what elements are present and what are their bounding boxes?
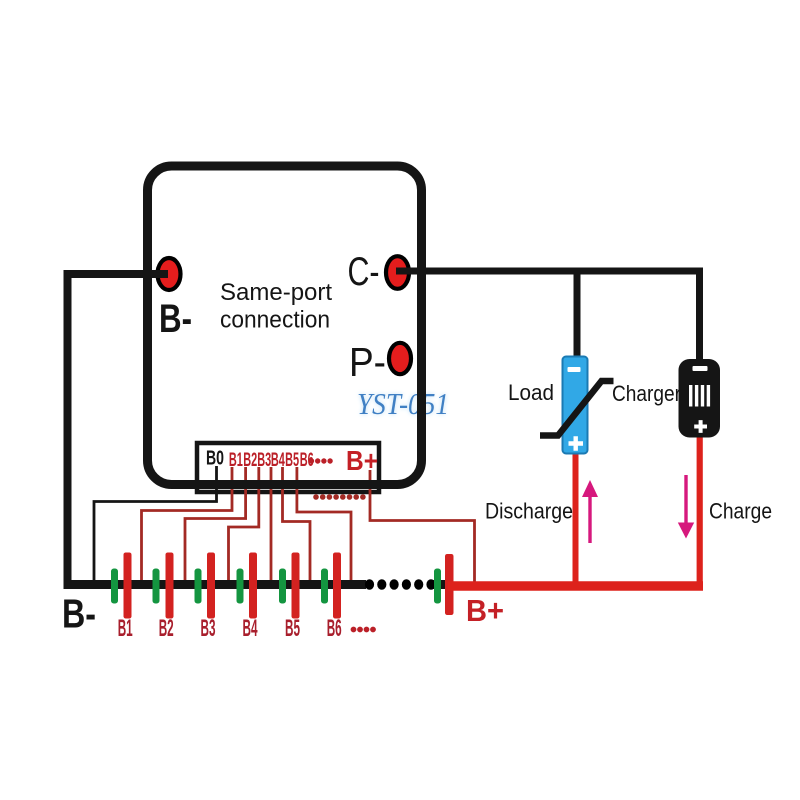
wire sense B4 bbox=[270, 467, 273, 582]
cell Bn positive plate (B+ end) bbox=[445, 554, 454, 615]
wire B+ bus bbox=[448, 581, 703, 591]
cell B6 negative plate bbox=[321, 569, 328, 604]
svg-text:Charge: Charge bbox=[709, 499, 772, 524]
wire drop to load bbox=[574, 271, 581, 358]
wire B0 sense (black) bbox=[94, 466, 217, 582]
wire sense B+ bbox=[370, 470, 475, 584]
load minus mark bbox=[568, 367, 581, 372]
svg-text:B1: B1 bbox=[118, 615, 133, 642]
cell B6 positive plate bbox=[333, 553, 341, 619]
cell B3 negative plate bbox=[195, 569, 202, 604]
connector ellipsis dots bbox=[309, 458, 314, 463]
charger minus mark bbox=[693, 366, 708, 371]
discharge arrow (up) bbox=[588, 495, 591, 543]
svg-text:P-: P- bbox=[349, 339, 386, 385]
load plus mark bbox=[569, 436, 584, 451]
cell B4 negative plate bbox=[237, 569, 244, 604]
charger plus mark bbox=[694, 420, 707, 433]
terminal B- pad bbox=[158, 258, 181, 290]
svg-text:connection: connection bbox=[220, 307, 330, 334]
svg-text:B5: B5 bbox=[285, 615, 300, 642]
BMS board U1 outline bbox=[148, 166, 422, 485]
svg-text:C-: C- bbox=[348, 250, 380, 294]
terminal C- pad bbox=[386, 256, 409, 289]
rail stub at B+ end bbox=[430, 580, 447, 589]
battery string ellipsis dots bbox=[365, 579, 374, 590]
cell B1 negative plate bbox=[111, 569, 118, 604]
terminal P- pad bbox=[389, 343, 411, 374]
svg-text:B+: B+ bbox=[346, 445, 378, 476]
svg-text:Same-port: Same-port bbox=[220, 279, 332, 306]
cell B4 positive plate bbox=[249, 553, 257, 619]
wire sense B1 bbox=[142, 467, 233, 582]
wire sense B3 bbox=[229, 467, 259, 582]
wire C- to top bus bbox=[396, 268, 703, 275]
wire drop to charger bbox=[696, 268, 703, 362]
cell B2 positive plate bbox=[166, 553, 174, 619]
cell label ellipsis dots bbox=[351, 627, 357, 633]
cell Bn negative plate (B+ end) bbox=[434, 569, 441, 604]
connector J1 (balance plug strip) bbox=[197, 443, 379, 492]
svg-text:B4: B4 bbox=[243, 615, 258, 642]
svg-text:B-: B- bbox=[159, 297, 192, 341]
wire charger return bbox=[697, 436, 703, 586]
wire sense B5 bbox=[283, 467, 311, 582]
svg-text:B+: B+ bbox=[466, 593, 504, 628]
svg-text:B3: B3 bbox=[201, 615, 216, 642]
svg-text:B-: B- bbox=[62, 591, 96, 637]
svg-text:Load: Load bbox=[508, 380, 554, 405]
svg-text:B0: B0 bbox=[206, 448, 224, 470]
svg-text:B6: B6 bbox=[327, 615, 342, 642]
charge arrow (down) bbox=[684, 475, 687, 524]
wire B- to battery negative rail bbox=[68, 274, 169, 585]
svg-text:Charger: Charger bbox=[612, 381, 681, 406]
wire sense B2 bbox=[185, 467, 246, 582]
load LD1 body bbox=[563, 357, 588, 454]
battery negative rail bbox=[64, 580, 367, 589]
wire sense B6 bbox=[297, 467, 351, 582]
cell B2 negative plate bbox=[153, 569, 160, 604]
svg-text:Discharge: Discharge bbox=[485, 499, 573, 524]
cell B3 positive plate bbox=[207, 553, 215, 619]
cell B1 positive plate bbox=[124, 553, 132, 619]
svg-text:B2: B2 bbox=[159, 615, 174, 642]
cell B5 positive plate bbox=[292, 553, 300, 619]
ellipsis dots below connector bbox=[313, 494, 319, 500]
cell B5 negative plate bbox=[279, 569, 286, 604]
wire load return bbox=[573, 452, 579, 586]
svg-text:YST-051: YST-051 bbox=[357, 386, 449, 421]
switch SW1 bbox=[540, 381, 614, 436]
charger CH1 body bbox=[679, 359, 721, 438]
charger vent stripes bbox=[689, 385, 692, 407]
